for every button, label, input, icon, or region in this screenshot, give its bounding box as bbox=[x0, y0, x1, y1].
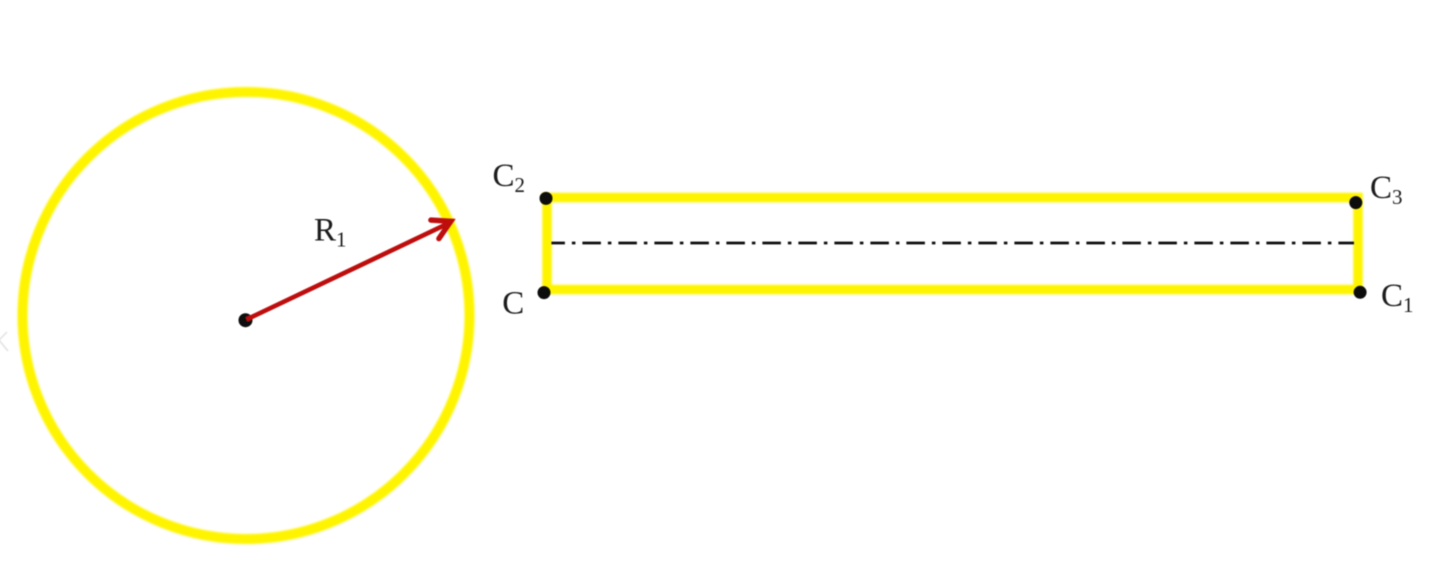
radius arrow R1 shaft bbox=[247, 223, 451, 320]
radius arrow R1 head bbox=[431, 220, 451, 239]
watermark X (left edge) bbox=[0, 332, 8, 351]
circle (yellow) bbox=[23, 92, 470, 539]
center point of circle bbox=[239, 313, 253, 327]
point C3 (top-right) bbox=[1349, 196, 1362, 209]
point C1 (bottom-right) bbox=[1354, 286, 1367, 299]
svg-text:C: C bbox=[502, 286, 524, 322]
centerline (dash-dot axis) bbox=[551, 242, 1354, 245]
point C (bottom-left) bbox=[538, 286, 551, 299]
rectangle (yellow) bbox=[547, 198, 1358, 290]
point C2 (top-left) bbox=[540, 192, 553, 205]
